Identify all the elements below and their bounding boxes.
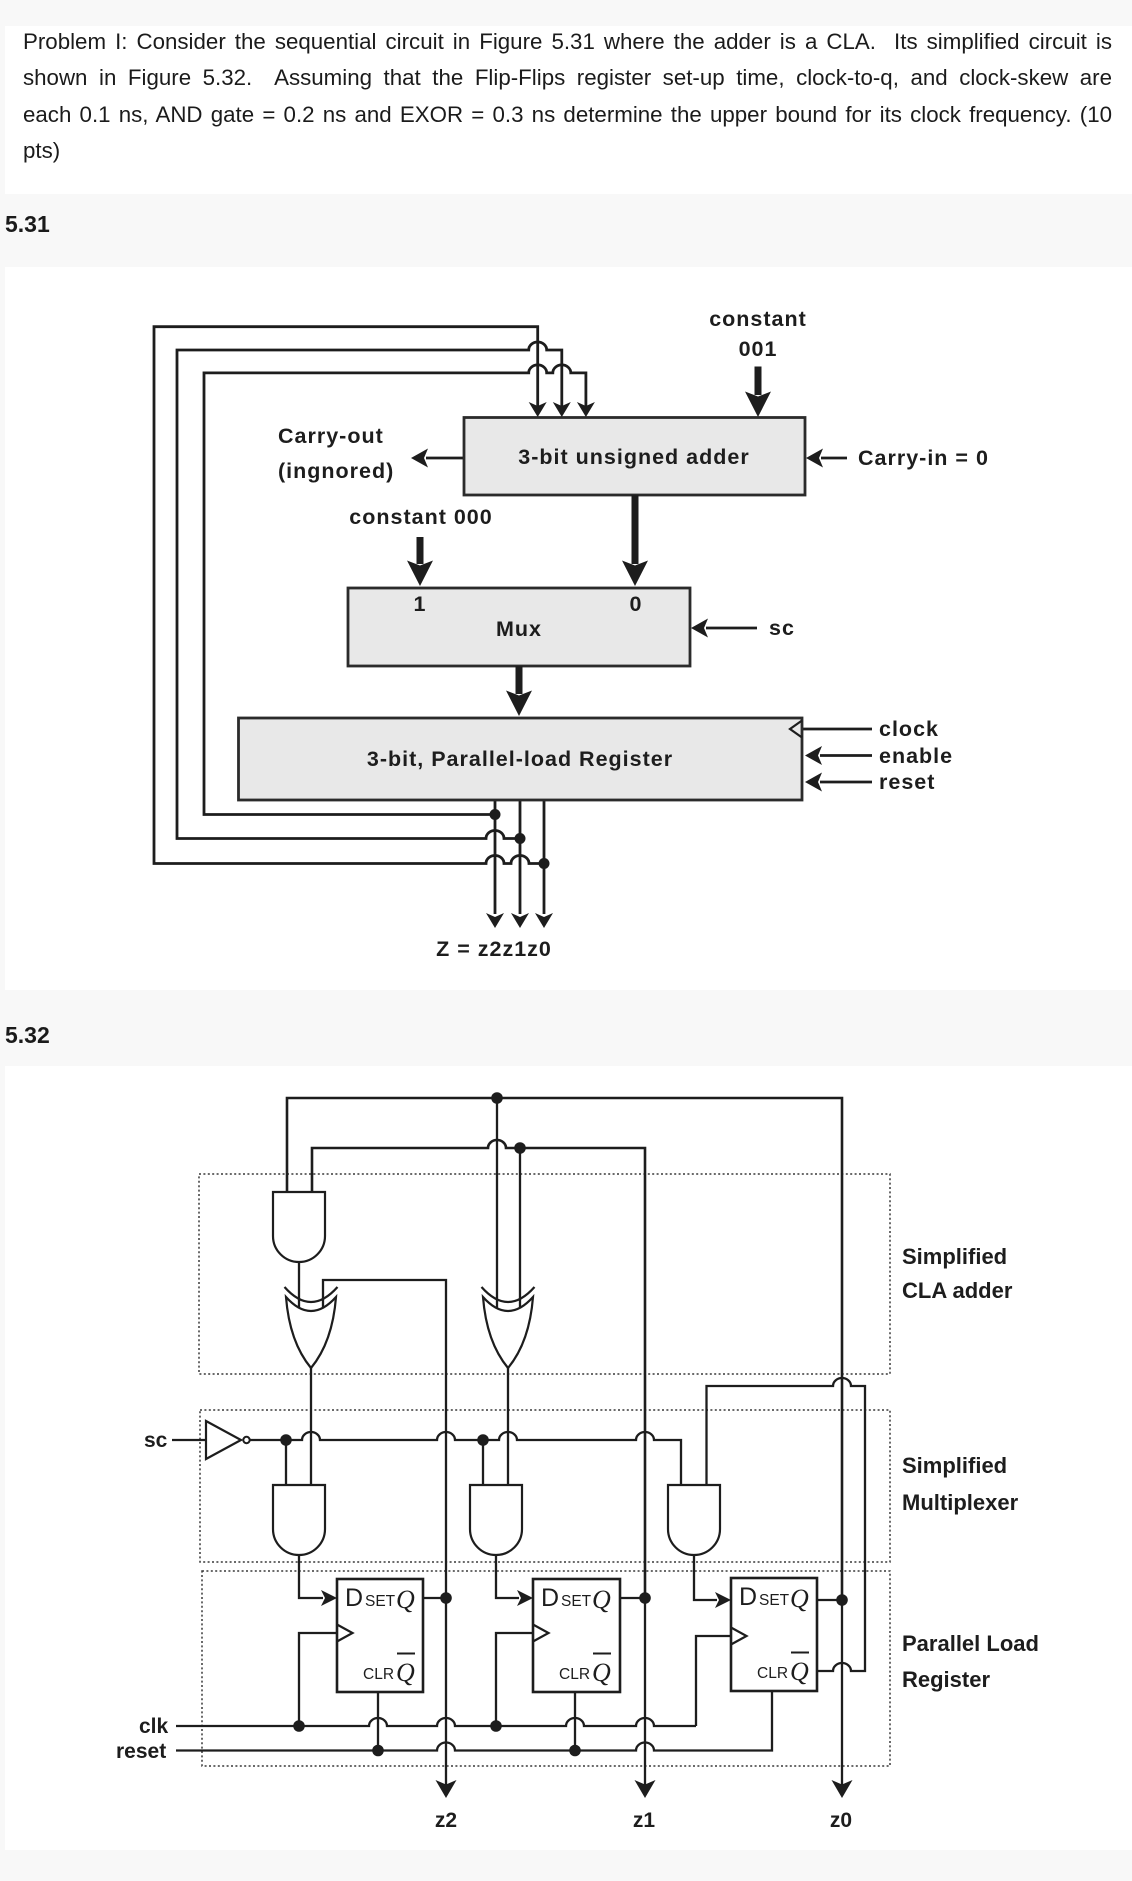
svg-text:Carry-out: Carry-out <box>278 424 384 448</box>
svg-text:(ingnored): (ingnored) <box>278 459 394 483</box>
white card: figure 5.32 <box>5 1066 1132 1850</box>
dashed box simplified multiplexer <box>200 1410 890 1562</box>
thick arrow constant 001 <box>755 367 762 396</box>
wire sc line <box>172 1432 681 1485</box>
flip-flop FF2 <box>533 1579 620 1692</box>
thick arrow mux to register <box>516 666 523 694</box>
xor gate X2 shield <box>482 1287 535 1302</box>
arrowhead z1 <box>635 1780 656 1798</box>
svg-text:Register: Register <box>902 1667 990 1692</box>
wire sc to AND2 left input <box>482 1440 484 1485</box>
svg-text:reset: reset <box>116 1740 166 1763</box>
svg-text:D: D <box>739 1583 757 1611</box>
white card: figure 5.31 <box>5 267 1132 990</box>
svg-text:Carry-in = 0: Carry-in = 0 <box>858 446 989 470</box>
arrowhead carry-out <box>411 449 428 468</box>
mux M1 <box>348 588 690 666</box>
wire carry-in <box>821 457 847 460</box>
junction dot FF1 Q <box>440 1592 452 1604</box>
junction dot clk FF2 <box>490 1720 502 1732</box>
arrowhead z1 out <box>511 913 529 928</box>
wire clk rail <box>176 1718 696 1726</box>
junction dot FF2 Q <box>639 1592 651 1604</box>
wire FF2 Q <box>620 1597 645 1599</box>
arrowhead reset <box>805 773 822 792</box>
svg-text:Q: Q <box>592 1658 611 1687</box>
and gate mux A3 <box>668 1485 720 1555</box>
wire outer feedback loop z0 <box>154 327 544 864</box>
wire FF3 clock <box>696 1636 731 1726</box>
dashed box parallel load register <box>202 1571 890 1766</box>
wire z1 output drop <box>519 800 522 914</box>
wire z1 drop <box>644 1598 646 1785</box>
svg-text:Q: Q <box>592 1585 611 1614</box>
wire CLA AND output to XOR1 <box>298 1262 300 1308</box>
svg-text:Simplified: Simplified <box>902 1244 1007 1269</box>
flip-flop FF3 <box>731 1578 817 1691</box>
wire sc select <box>706 627 757 630</box>
svg-text:Q: Q <box>790 1584 809 1613</box>
svg-text:001: 001 <box>739 337 778 361</box>
arrowhead z2 <box>436 1780 457 1798</box>
svg-text:3-bit unsigned adder: 3-bit unsigned adder <box>518 445 749 469</box>
wire sc to AND1 left input <box>285 1440 287 1485</box>
dashed box simplified CLA adder <box>199 1174 890 1374</box>
svg-text:Multiplexer: Multiplexer <box>902 1490 1019 1515</box>
flip-flop FF1 <box>337 1579 423 1692</box>
arrowhead enable <box>805 746 822 765</box>
register clock notch <box>790 721 802 738</box>
arrowhead FF3 D <box>715 1592 731 1608</box>
arrowhead adder input 2 <box>553 402 571 417</box>
wire FF2 clock <box>496 1633 533 1726</box>
wire reset rail <box>176 1692 772 1751</box>
svg-text:sc: sc <box>769 616 795 640</box>
register R1 3-bit parallel-load register <box>239 718 803 800</box>
arrowhead FF2 D <box>517 1590 533 1606</box>
svg-text:Q: Q <box>396 1585 415 1614</box>
svg-text:CLR: CLR <box>757 1665 788 1682</box>
and gate mux A1 <box>273 1485 325 1555</box>
wire z0 feedback top <box>287 1098 842 1600</box>
wire AND3 output to FF3 D <box>694 1555 717 1600</box>
svg-text:SET: SET <box>365 1593 396 1610</box>
svg-text:clk: clk <box>139 1715 169 1738</box>
arrowhead sc <box>691 619 708 638</box>
svg-text:SET: SET <box>561 1593 592 1610</box>
inverter sc buffer <box>206 1421 241 1459</box>
adder U1 3-bit unsigned adder <box>464 418 805 496</box>
wire FF1 clock <box>299 1633 337 1726</box>
arrowhead adder input 3 <box>577 402 595 417</box>
svg-text:D: D <box>541 1584 559 1612</box>
svg-text:z2: z2 <box>435 1809 457 1832</box>
wire z2 output drop <box>494 800 497 914</box>
svg-text:Simplified: Simplified <box>902 1453 1007 1478</box>
svg-text:constant 000: constant 000 <box>349 505 492 529</box>
wire reset input <box>820 781 872 784</box>
junction dot sc AND2 <box>477 1434 489 1446</box>
wire FF3 Qbar feedback <box>707 1378 866 1671</box>
wire carry-out <box>426 457 464 460</box>
wire XOR1 output to AND1 <box>310 1368 312 1485</box>
wire enable input <box>820 754 872 757</box>
svg-text:Parallel Load: Parallel Load <box>902 1631 1039 1656</box>
wire z2 drop <box>445 1598 447 1785</box>
wire FF1 CLR <box>377 1692 379 1751</box>
junction dot z0/loop <box>539 858 550 869</box>
arrowhead z0 <box>832 1780 853 1798</box>
svg-text:clock: clock <box>879 717 939 741</box>
and gate mux A2 <box>470 1485 522 1555</box>
svg-text:CLA adder: CLA adder <box>902 1278 1013 1303</box>
junction dot reset FF2 <box>569 1745 581 1757</box>
svg-text:Q: Q <box>790 1657 809 1686</box>
thick arrow constant 000 <box>417 537 424 564</box>
xor gate X1 body <box>286 1297 336 1368</box>
wire z0 to XOR2 left input <box>496 1098 498 1309</box>
arrowhead adder input 1 <box>529 402 547 417</box>
svg-text:enable: enable <box>879 744 953 768</box>
xor gate X1 shield <box>285 1287 338 1302</box>
junction dot FF3 Q <box>836 1594 848 1606</box>
svg-text:sc: sc <box>144 1429 168 1452</box>
wire z1 feedback second <box>312 1140 645 1598</box>
junction dot z2/loop <box>490 809 501 820</box>
junction dot clk FF1 <box>293 1720 305 1732</box>
svg-text:Q: Q <box>396 1658 415 1687</box>
svg-text:1: 1 <box>414 592 427 616</box>
and gate CLA G1 <box>273 1192 325 1262</box>
white card: problem text <box>5 26 1132 194</box>
junction dot z1 second <box>514 1142 526 1154</box>
wire FF3 Q <box>817 1599 842 1601</box>
wire z2 feedback to XOR1 right input <box>323 1280 446 1598</box>
wire z1 to XOR2 right input <box>519 1148 521 1309</box>
wire AND2 output to FF2 D <box>496 1555 519 1598</box>
svg-text:D: D <box>345 1584 363 1612</box>
svg-text:Mux: Mux <box>496 617 542 641</box>
section label 5.32 <box>5 1022 50 1049</box>
arrowhead z0 out <box>535 913 553 928</box>
arrowhead FF1 D <box>321 1590 337 1606</box>
svg-text:SET: SET <box>759 1592 790 1609</box>
svg-text:Z = z2z1z0: Z = z2z1z0 <box>436 937 552 961</box>
junction dot z0 top <box>491 1092 503 1104</box>
svg-text:z1: z1 <box>633 1809 656 1832</box>
arrowhead z2 out <box>486 913 504 928</box>
svg-text:constant: constant <box>709 307 807 331</box>
wire middle feedback loop z1 <box>177 342 562 839</box>
svg-text:CLR: CLR <box>559 1666 590 1683</box>
wire FF1 Q <box>423 1597 446 1599</box>
svg-text:3-bit, Parallel-load Register: 3-bit, Parallel-load Register <box>367 747 673 771</box>
junction dot sc AND1 <box>280 1434 292 1446</box>
wire XOR2 output to AND2 <box>507 1368 509 1485</box>
svg-text:CLR: CLR <box>363 1666 394 1683</box>
section label 5.31 <box>5 211 50 238</box>
wire clock input <box>803 728 872 731</box>
xor gate X2 body <box>483 1297 533 1368</box>
wire AND1 output to FF1 D <box>299 1555 323 1598</box>
wire inner feedback loop z2 <box>204 365 586 815</box>
svg-text:reset: reset <box>879 770 935 794</box>
wire FF2 CLR <box>574 1692 576 1751</box>
arrowhead carry-in <box>806 449 823 468</box>
thick arrow adder to mux <box>632 495 639 564</box>
svg-text:z0: z0 <box>830 1809 852 1832</box>
junction dot z1/loop <box>515 833 526 844</box>
svg-text:0: 0 <box>630 592 643 616</box>
wire z0 output drop <box>543 800 546 914</box>
junction dot reset FF1 <box>372 1745 384 1757</box>
wire z0 drop <box>841 1600 843 1785</box>
